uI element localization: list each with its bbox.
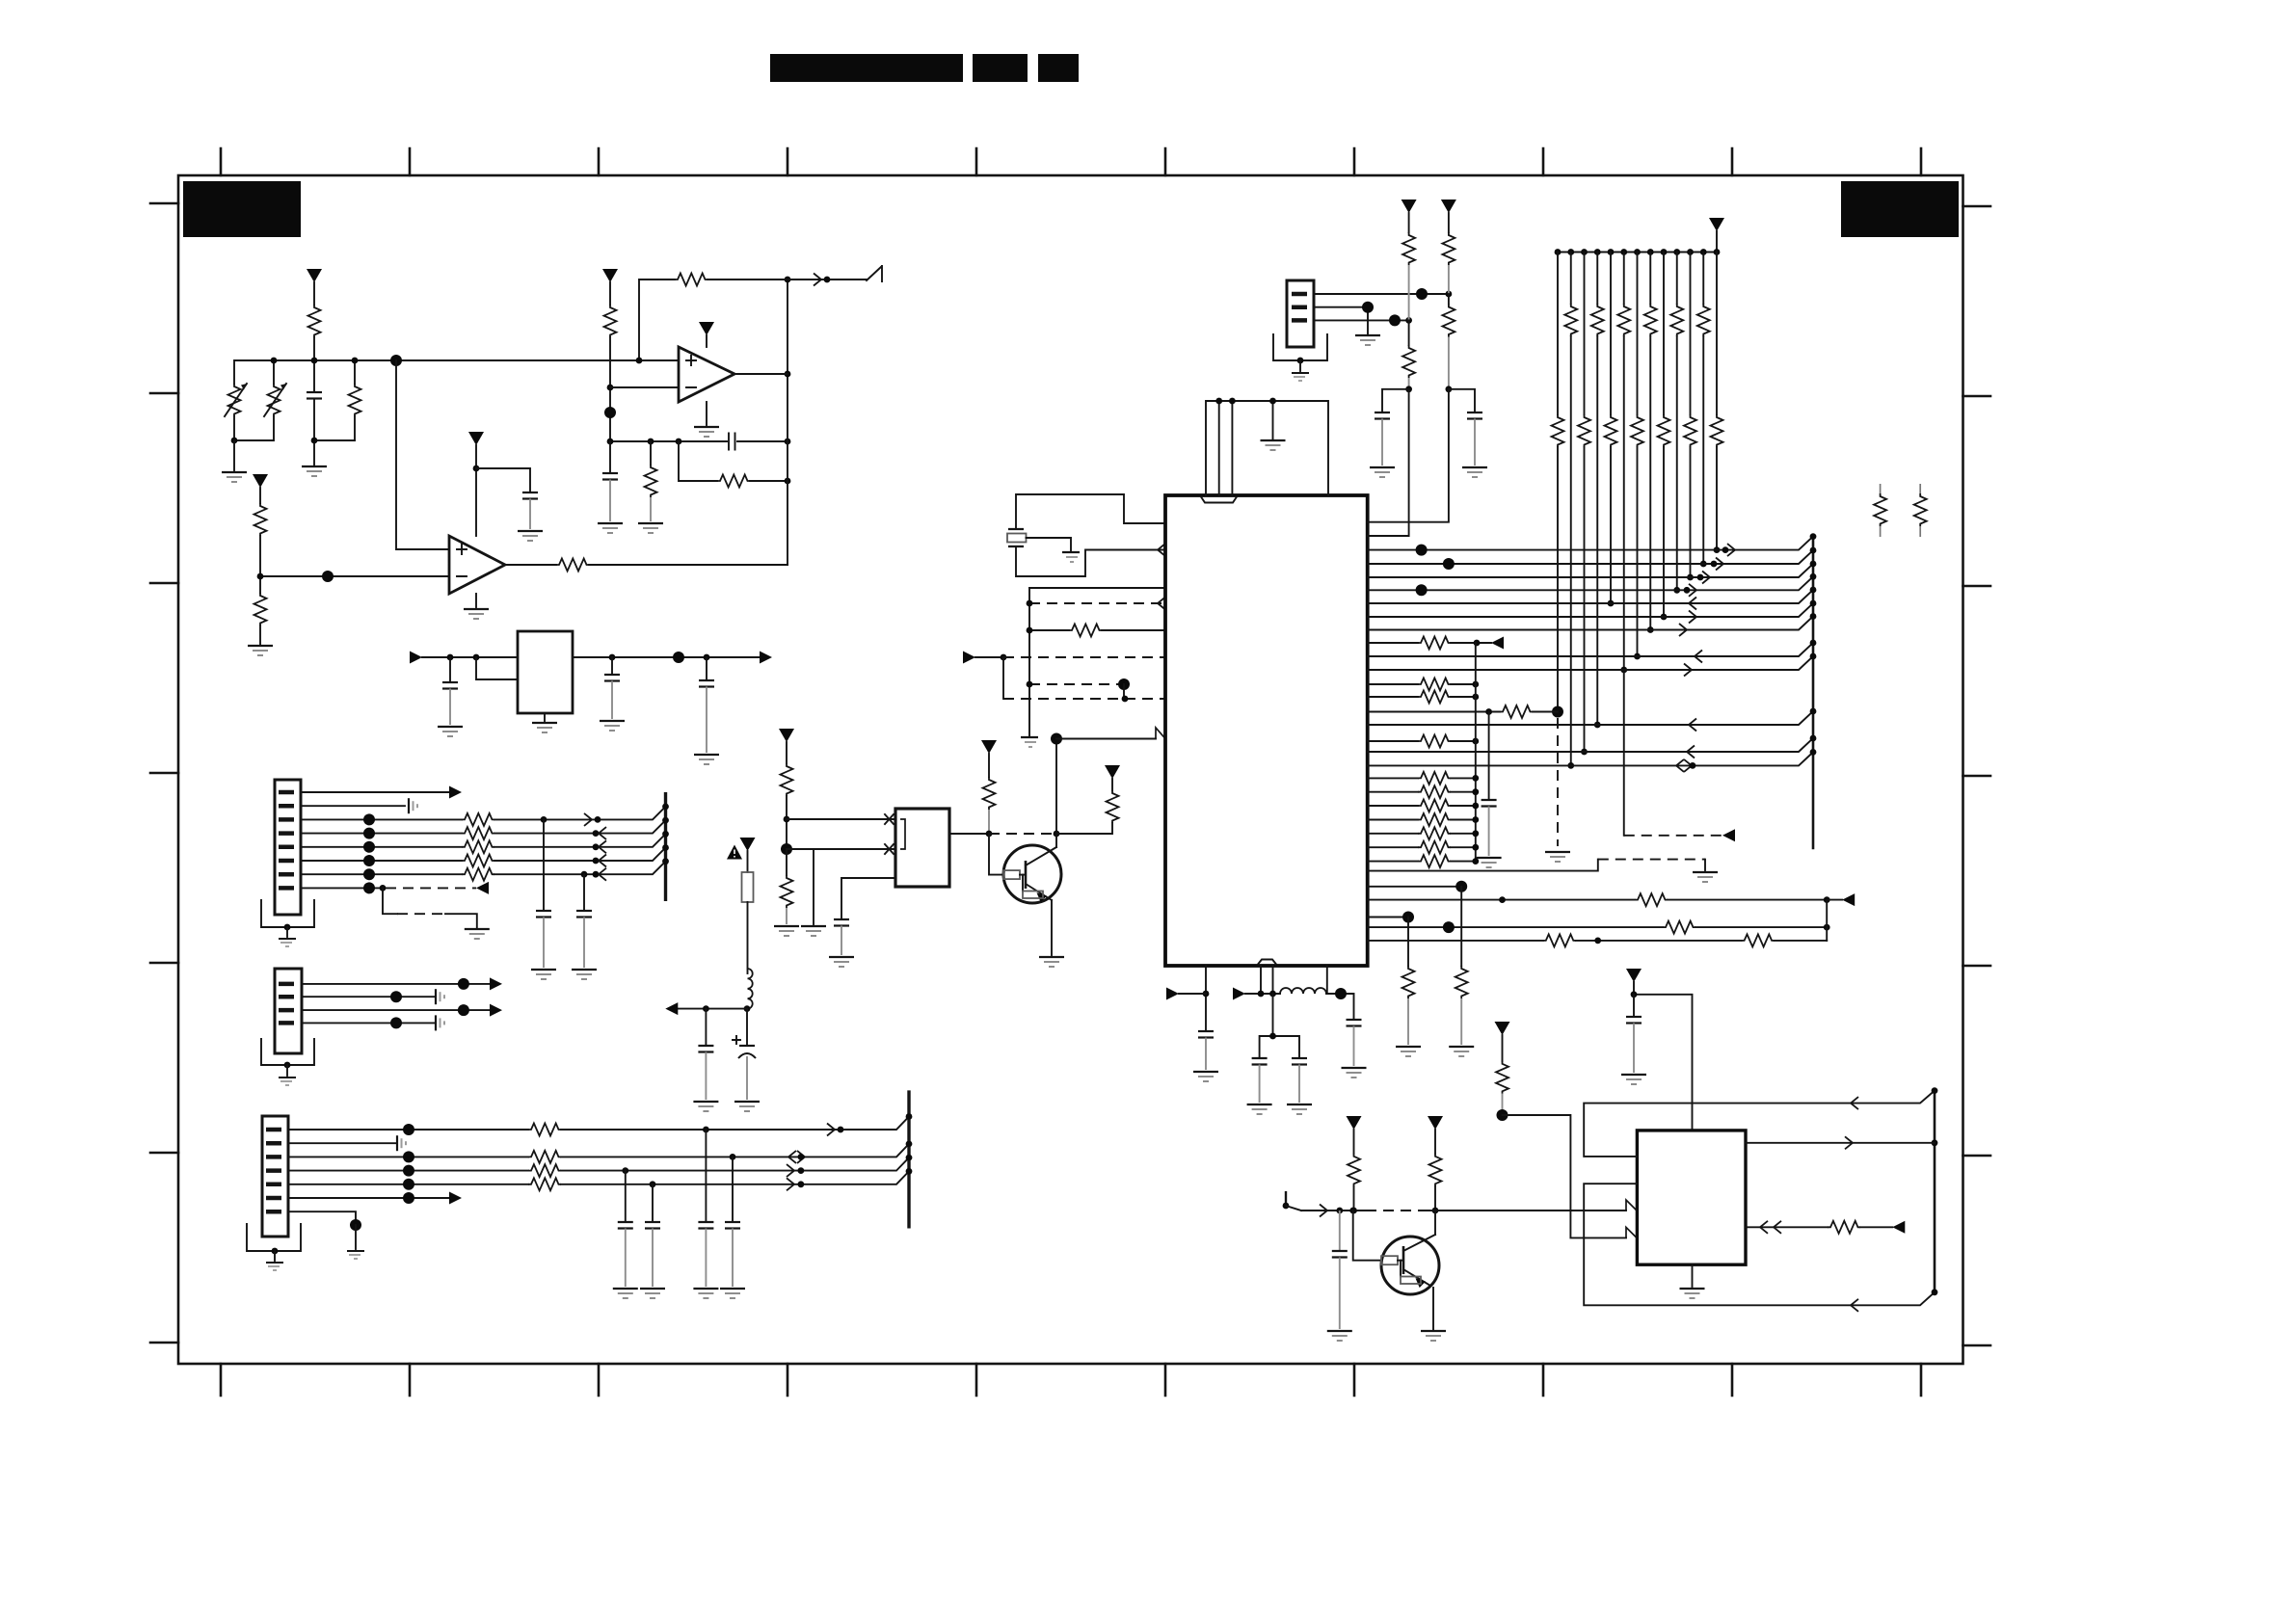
capacitor C12 <box>613 1171 638 1298</box>
resistor R22 <box>983 754 996 834</box>
warning mark <box>727 845 742 860</box>
ground C6 <box>600 721 625 731</box>
wire U2 to ground <box>475 594 477 607</box>
array column resistor RN8 <box>1644 253 1657 633</box>
VCC arrow R45 <box>1428 1116 1443 1130</box>
ground U1 <box>694 427 719 437</box>
dashed collector link <box>989 833 1056 835</box>
ground Q2 emitter <box>1421 1331 1446 1341</box>
x mark pin1 <box>885 814 894 824</box>
capacitor C11 <box>572 874 597 979</box>
capacitor C5 <box>442 657 458 725</box>
black zone label block top-left <box>183 181 301 237</box>
ground C7 <box>694 755 719 764</box>
wire to arrow <box>678 1008 747 1010</box>
wire box pin2 <box>787 848 895 850</box>
regulator input arrow <box>410 652 422 664</box>
title block bar 1 <box>770 54 963 82</box>
resistor R1 <box>349 384 361 440</box>
matrix row 626 <box>1368 590 1813 610</box>
bracket J4 <box>1273 334 1327 360</box>
node dots on sensor bus <box>271 358 278 364</box>
resistor R7 feedback <box>679 441 790 488</box>
flag pin U3 w4 <box>1626 1227 1637 1237</box>
bracket J2 <box>261 1039 314 1065</box>
wire U2 power <box>475 445 477 536</box>
wire J2 pin3 <box>302 1004 502 1017</box>
array column resistor RN7 <box>1631 253 1643 660</box>
row 919 pulldown <box>1368 881 1475 1056</box>
inductor L1 <box>748 969 753 1009</box>
ground IC top <box>1261 440 1286 450</box>
wire regulator output <box>573 656 760 658</box>
array column resistor RN6 <box>1617 253 1630 836</box>
resistor R28 <box>1442 213 1455 294</box>
bus bar J3 rows <box>907 1090 910 1228</box>
wire R46 to U3 <box>1503 1115 1627 1237</box>
VCC arrow chain1 <box>1402 200 1417 213</box>
wire J3 pin7 <box>288 1211 364 1259</box>
VCC arrow U2 <box>468 432 484 445</box>
resistor R17 row J3 pin4 <box>288 1157 909 1177</box>
wire U3 loop bottom <box>1584 1184 1935 1312</box>
matrix row 681 <box>1368 643 1813 663</box>
wire U3 loop top <box>1584 1091 1935 1157</box>
resistor R11 row pin4 <box>301 820 666 839</box>
arrow crystal in <box>1158 544 1165 556</box>
op-amp U2 <box>449 536 505 594</box>
capacitor C6 <box>604 657 620 719</box>
wire U1 inverting <box>610 386 679 388</box>
wire row 1256 <box>1301 1205 1626 1217</box>
ground R3 <box>248 646 273 655</box>
array column resistor RN13 <box>1711 253 1723 553</box>
ground J1 <box>279 924 296 946</box>
op-amp U1 <box>679 347 734 402</box>
wire box pin1 <box>787 818 895 820</box>
arrow row682 <box>963 652 975 664</box>
array column resistor RN2 <box>1564 253 1577 769</box>
capacitor C21 <box>1449 389 1487 477</box>
node big dot bias <box>604 407 616 418</box>
resistor R45 <box>1429 1130 1442 1213</box>
capacitor C10 <box>531 819 556 979</box>
row 975 with resistors <box>1368 934 1828 946</box>
row 933 with resistor <box>1368 893 1855 906</box>
resistor R16 row J3 pin3 <box>288 1144 909 1163</box>
wire row610 <box>1029 587 1165 589</box>
resistor R20 <box>781 742 793 849</box>
ground J4 <box>1292 358 1309 381</box>
resonator X2 box <box>895 809 949 887</box>
array column resistor RN12 <box>1697 253 1710 568</box>
array column resistor RN1 <box>1545 253 1570 863</box>
frame tick marks top <box>221 148 1921 175</box>
VCC arrow R20 chain <box>779 729 794 742</box>
capacitor C1 <box>307 392 355 465</box>
capacitor C16 <box>693 1009 718 1111</box>
resistor R47 U3 east <box>1746 1221 1905 1234</box>
wire box pin3 <box>829 878 895 967</box>
resistor R37 row 836 <box>1368 800 1480 812</box>
wire feedback vertical <box>787 279 788 565</box>
VCC arrow U1 <box>699 322 714 335</box>
wire box output <box>949 833 989 835</box>
resistor R30 row 667 <box>1368 637 1504 650</box>
frame tick marks left <box>150 203 178 1343</box>
chassis ground Y1 <box>1062 552 1080 562</box>
resistor R8 feedback top <box>675 274 867 286</box>
resistor R3 <box>254 576 267 644</box>
matrix row 695 <box>1368 656 1813 677</box>
resistor R24 row654 <box>1027 625 1165 637</box>
node A big junction <box>390 355 402 366</box>
wire U1 noninverting <box>639 279 679 360</box>
arrow J1 pin1 <box>449 786 462 799</box>
wire J2 pin2 <box>302 989 444 1004</box>
array column resistor RN4 <box>1591 253 1604 729</box>
wire noninverting input U2 <box>396 360 449 549</box>
IC U2 main <box>1165 495 1368 966</box>
dashed row725 <box>1003 657 1165 702</box>
VCC arrow R5 chain U1 bias <box>602 269 618 282</box>
wire U3 east row <box>1746 1136 1935 1149</box>
wire J4 pin3 <box>1314 314 1412 326</box>
array column resistor RN10 <box>1670 253 1683 594</box>
capacitor C20 <box>1370 389 1409 477</box>
resistor R34 row 769 <box>1368 735 1480 748</box>
VCC arrow chain2 <box>1441 200 1456 213</box>
bus bar J1 rows <box>664 792 667 901</box>
title block bar 2 <box>973 54 1028 82</box>
VCC arrow R44 <box>1347 1116 1362 1130</box>
wire pin8 stub to ground <box>383 888 490 939</box>
VCC arrow U3 supply <box>1626 969 1642 982</box>
node U1 minus <box>607 385 614 391</box>
dashed row 866 <box>1624 829 1735 841</box>
bus U3 right <box>1932 1087 1938 1295</box>
thermistor RT2 <box>234 384 286 440</box>
matrix row 570 <box>1368 537 1813 557</box>
wire J2 pin4 <box>302 1015 444 1030</box>
wire inverting input U2 <box>260 575 449 577</box>
wire U1 output <box>734 373 788 375</box>
capacitor C2 <box>476 468 538 529</box>
resistor R13 row pin6 <box>301 848 666 867</box>
IC U3 <box>1637 1131 1746 1264</box>
frame tick marks bottom <box>221 1364 1921 1396</box>
wire regulator input <box>422 656 518 658</box>
resistor R32 row 723 <box>1368 691 1480 704</box>
capacitor C4 <box>602 441 618 521</box>
ground C2 <box>518 531 543 541</box>
ground C1 <box>302 466 327 476</box>
wire regulator ground <box>544 713 546 721</box>
matrix row 794 <box>1368 752 1813 772</box>
capacitor C24 <box>1327 1211 1352 1341</box>
VCC arrow R23 <box>1105 765 1120 779</box>
capacitor C7 <box>699 657 714 753</box>
resistor R15 row J3 pin1 <box>288 1117 909 1136</box>
connector J4 <box>1287 280 1314 347</box>
ground R6 <box>638 523 663 533</box>
flag pin U3 w3 <box>1626 1200 1637 1211</box>
wire J4 pin1 <box>1314 288 1452 300</box>
matrix row 612 <box>1368 576 1813 597</box>
floating resistor R42 <box>1874 484 1886 537</box>
wire J1 pin2 <box>301 805 405 807</box>
thermistor RT1 <box>225 384 247 440</box>
resistor R29 <box>1368 294 1455 522</box>
matrix row 585 <box>1368 550 1813 571</box>
ground RT <box>222 472 247 482</box>
resistor R31 row 710 <box>1368 678 1480 691</box>
common vertical resistor rows <box>1475 643 1477 862</box>
resistor R36 row 821 <box>1368 785 1480 798</box>
matrix row 780 <box>1368 738 1813 758</box>
connector J1 <box>275 780 301 915</box>
switch S1 <box>867 266 882 281</box>
VCC arrow R22 <box>981 740 997 754</box>
clock flag U5 <box>1156 728 1165 739</box>
connector J2 <box>275 969 302 1053</box>
ground C5 <box>438 727 463 736</box>
wire U1 to ground <box>706 402 707 425</box>
capacitor C23 <box>1621 995 1646 1084</box>
array column resistor RN11 <box>1684 253 1696 581</box>
resistor R23 <box>1056 779 1119 834</box>
wire J1 pin1 <box>301 791 449 793</box>
black zone label block top-right <box>1841 181 1959 237</box>
capacitor C3 feedback <box>729 434 735 450</box>
resistor R6 <box>645 441 657 521</box>
wire J2 pin1 <box>302 977 502 990</box>
wire collector to clock node <box>1055 739 1057 848</box>
dashed row682 <box>975 654 1165 661</box>
wire J4 pin2 ground <box>1314 302 1380 345</box>
border frame <box>178 175 1963 1364</box>
switch S2 <box>1283 1191 1301 1211</box>
title block bar 3 <box>1038 54 1079 82</box>
resistor R2 <box>254 488 267 576</box>
resistor R26 <box>1402 213 1415 320</box>
node arrow out <box>824 277 831 283</box>
resistor R4 output U2 <box>505 559 788 572</box>
ground J3 <box>266 1248 283 1270</box>
frame tick marks right <box>1963 206 1991 1345</box>
VCC arrow fuse chain <box>740 838 756 851</box>
capacitor C17 electrolytic <box>733 1009 760 1111</box>
node bus top-left sensor net <box>234 360 639 392</box>
resistor R40 row 879 <box>1368 841 1480 854</box>
inductor L2 <box>1280 988 1326 994</box>
array column resistor RN9 <box>1658 253 1670 621</box>
resistor R38 row 850 <box>1368 813 1480 826</box>
floating resistor R43 <box>1914 484 1927 537</box>
VCC arrow sensor bus <box>307 269 322 282</box>
array column resistor RN5 <box>1605 253 1617 607</box>
array top bus <box>1558 231 1717 253</box>
node junction RT pair <box>231 438 238 444</box>
resistor R18 row J3 pin5 <box>288 1171 909 1190</box>
crystal loop bottom <box>1016 546 1165 576</box>
vertical join 1895 <box>1826 900 1828 941</box>
ground J2 <box>279 1062 296 1085</box>
wire regulator enable <box>476 657 518 679</box>
feedback row U1 <box>610 440 788 442</box>
wire J1 pin8 dashed <box>301 882 489 894</box>
chassis ground pin2 <box>409 798 417 813</box>
IC bottom pins inductor <box>1233 966 1280 1000</box>
regulator U4 <box>518 631 573 713</box>
wire RT to ground <box>233 440 235 470</box>
capacitor C15 <box>720 1157 745 1298</box>
resistor R14 row pin7 <box>301 862 666 881</box>
row 951 pulldown <box>1368 912 1421 1057</box>
resistor R12 row pin5 <box>301 834 666 853</box>
resistor R5 <box>604 282 617 441</box>
dashed row 891 to ground <box>1368 860 1718 882</box>
right bus <box>1812 537 1815 848</box>
VCC arrow R2 chain <box>253 474 268 488</box>
matrix row 599 <box>1368 564 1813 584</box>
resistor R0 sensor pullup <box>308 282 321 360</box>
node box input <box>784 816 790 823</box>
ground C4 <box>598 523 623 533</box>
capacitor C22 column <box>1477 712 1502 868</box>
chassis ground west column <box>1021 737 1038 747</box>
decoupling pair <box>1247 994 1312 1114</box>
output arrow U4 <box>760 652 772 664</box>
capacitor C14 <box>693 1130 718 1298</box>
ground U3 <box>1680 1264 1705 1298</box>
connector J3 <box>262 1116 288 1237</box>
resistor R21 <box>774 843 799 936</box>
resistor R27 <box>1368 320 1415 536</box>
bracket J1 <box>261 900 314 927</box>
matrix row 653 <box>1368 617 1813 637</box>
x mark pin2 <box>885 844 894 854</box>
ground Q1 emitter <box>1039 957 1064 967</box>
matrix row 752 <box>1368 711 1813 732</box>
dashed row626 <box>1027 598 1165 610</box>
VCC arrow R46 <box>1495 1022 1510 1035</box>
wire U3 supply <box>1631 982 1693 1131</box>
node L1 out <box>744 1005 751 1012</box>
vertical bus west <box>1028 588 1030 735</box>
wire L2 to cap <box>1326 966 1367 1078</box>
matrix row 640 <box>1368 603 1813 624</box>
arrow L1 out <box>665 1002 678 1015</box>
wire J3 pin6 <box>288 1192 462 1205</box>
wire pin2 ground tap <box>801 849 826 936</box>
resistor R46 <box>1496 1035 1508 1121</box>
resistor R35 row 807 <box>1368 772 1480 785</box>
resistor R44 <box>1348 1130 1360 1213</box>
crystal Y1 <box>1007 529 1071 550</box>
bracket J3 <box>247 1224 301 1251</box>
transistor Q1 <box>989 834 1061 955</box>
array column resistor RN3 <box>1578 253 1590 756</box>
resistor R41 row 893 <box>1368 855 1480 867</box>
row 962 with resistor <box>1368 921 1830 934</box>
IC top power rail <box>1206 401 1328 495</box>
IC bottom pin1 cap <box>1166 966 1218 1081</box>
fuse F1 <box>742 851 754 973</box>
resistor R33 row 738 <box>1368 705 1558 718</box>
wire clock row <box>1056 738 1156 740</box>
resistor R39 row 864 <box>1368 827 1480 839</box>
ground U2 <box>464 609 489 619</box>
crystal loop top <box>1016 494 1165 529</box>
wire J3 pin2 <box>288 1135 406 1151</box>
capacitor C13 <box>640 1184 665 1298</box>
VCC arrow resistor array <box>1709 218 1724 231</box>
ground U4 <box>532 723 557 732</box>
dashed row710 <box>1027 678 1130 699</box>
transistor Q2 <box>1353 1211 1439 1329</box>
resistor R10 row pin3 <box>301 807 666 826</box>
